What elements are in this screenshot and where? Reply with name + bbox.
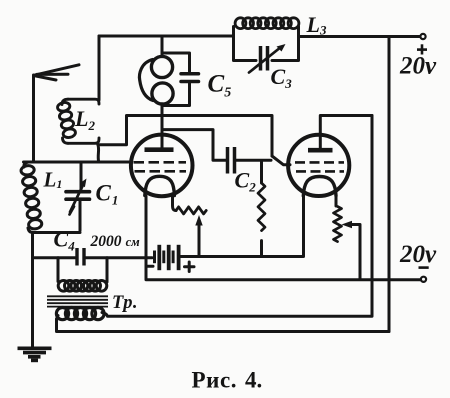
svg-text:C4: C4 bbox=[54, 227, 76, 254]
svg-text:L2: L2 bbox=[74, 106, 95, 133]
wire secondary right to tube2 plate bbox=[102, 116, 372, 317]
tube V1 plate bbox=[145, 147, 174, 152]
battery plus label bbox=[185, 262, 195, 272]
svg-text:Рис.: Рис. bbox=[192, 368, 238, 393]
wire grid bus tube1 / L1 box top bbox=[24, 161, 130, 164]
rheostat R2 bbox=[334, 207, 342, 242]
inductor L1 bbox=[20, 162, 80, 233]
wire V1 filament right leg bbox=[173, 197, 177, 211]
wire phones drop bbox=[161, 36, 164, 57]
wire V2 plate lead bbox=[320, 116, 372, 149]
wire ground vertical bbox=[31, 233, 34, 348]
capacitor C4 bbox=[77, 248, 84, 266]
rheostat R2 wiper arrow bbox=[342, 221, 353, 228]
wire top bus bbox=[99, 35, 234, 38]
ground bbox=[18, 348, 52, 360]
wire plate lead tube 1 bbox=[161, 104, 164, 148]
svg-text:20v: 20v bbox=[399, 241, 437, 268]
svg-text:2000 см: 2000 см bbox=[90, 233, 141, 250]
wire secondary left down bbox=[57, 316, 59, 322]
tube V2 filament bbox=[303, 177, 336, 196]
tube V1 filament bbox=[145, 176, 175, 195]
wire bottom bus (battery minus side) bbox=[33, 256, 76, 259]
tube V2 bbox=[288, 135, 349, 196]
wire C5 bottom to phones bottom bbox=[163, 84, 190, 106]
wire left drop to L2 bbox=[98, 36, 101, 100]
transformer Tp primary bbox=[57, 258, 60, 282]
tube V2 grid bbox=[295, 162, 344, 171]
transformer Tp secondary bbox=[56, 308, 104, 320]
headphones T bbox=[139, 56, 173, 104]
wire jog to V2 grid bbox=[272, 156, 290, 165]
tube V2 plate bbox=[308, 148, 333, 153]
node terminal 20v bottom bbox=[421, 277, 426, 282]
svg-text:C5: C5 bbox=[208, 71, 232, 101]
inductor L2 bbox=[57, 99, 99, 143]
capacitor C2 bbox=[228, 147, 235, 174]
rheostat R1 wiper arrow bbox=[198, 222, 201, 256]
capacitor C3 (variable) bbox=[261, 46, 268, 71]
antenna bbox=[32, 75, 35, 162]
wire V1 filament left leg bbox=[146, 196, 421, 280]
svg-text:L1: L1 bbox=[43, 168, 63, 192]
svg-text:4.: 4. bbox=[245, 368, 262, 393]
battery minus label bbox=[146, 265, 153, 268]
wire V2 filament left leg to battery plus bbox=[302, 197, 305, 257]
tube V1 grid bbox=[134, 162, 187, 171]
transformer core bbox=[47, 296, 108, 306]
svg-text:Тр.: Тр. bbox=[112, 293, 138, 313]
node terminal +20v bbox=[420, 34, 425, 39]
battery B bbox=[155, 245, 179, 270]
wire L2 bottom to C2 junction bbox=[99, 116, 272, 157]
wire plate V1 to C2 bbox=[162, 130, 226, 161]
wire C2 right to junction bbox=[236, 159, 271, 162]
label +20v top bbox=[417, 44, 427, 54]
svg-text:L3: L3 bbox=[306, 12, 327, 38]
wire +20v vertical to transformer bottom bbox=[388, 37, 391, 332]
tank circuit L3 C3 box bbox=[234, 27, 257, 61]
resistor R3 grid leak bbox=[260, 161, 263, 184]
svg-text:C1: C1 bbox=[96, 181, 119, 208]
wire V2 filament right leg bbox=[335, 197, 338, 207]
svg-text:C3: C3 bbox=[271, 64, 293, 91]
tube V1 bbox=[131, 135, 193, 197]
capacitor C5 bbox=[181, 74, 199, 82]
wire phones top to C5 bbox=[162, 53, 190, 72]
svg-text:C2: C2 bbox=[235, 168, 257, 195]
capacitor C1 (variable) bbox=[80, 162, 83, 190]
rheostat R1 bbox=[176, 207, 206, 214]
wire L2 to grid jog bbox=[96, 145, 100, 162]
inductor L3 bbox=[235, 18, 299, 29]
svg-text:20v: 20v bbox=[399, 53, 437, 80]
